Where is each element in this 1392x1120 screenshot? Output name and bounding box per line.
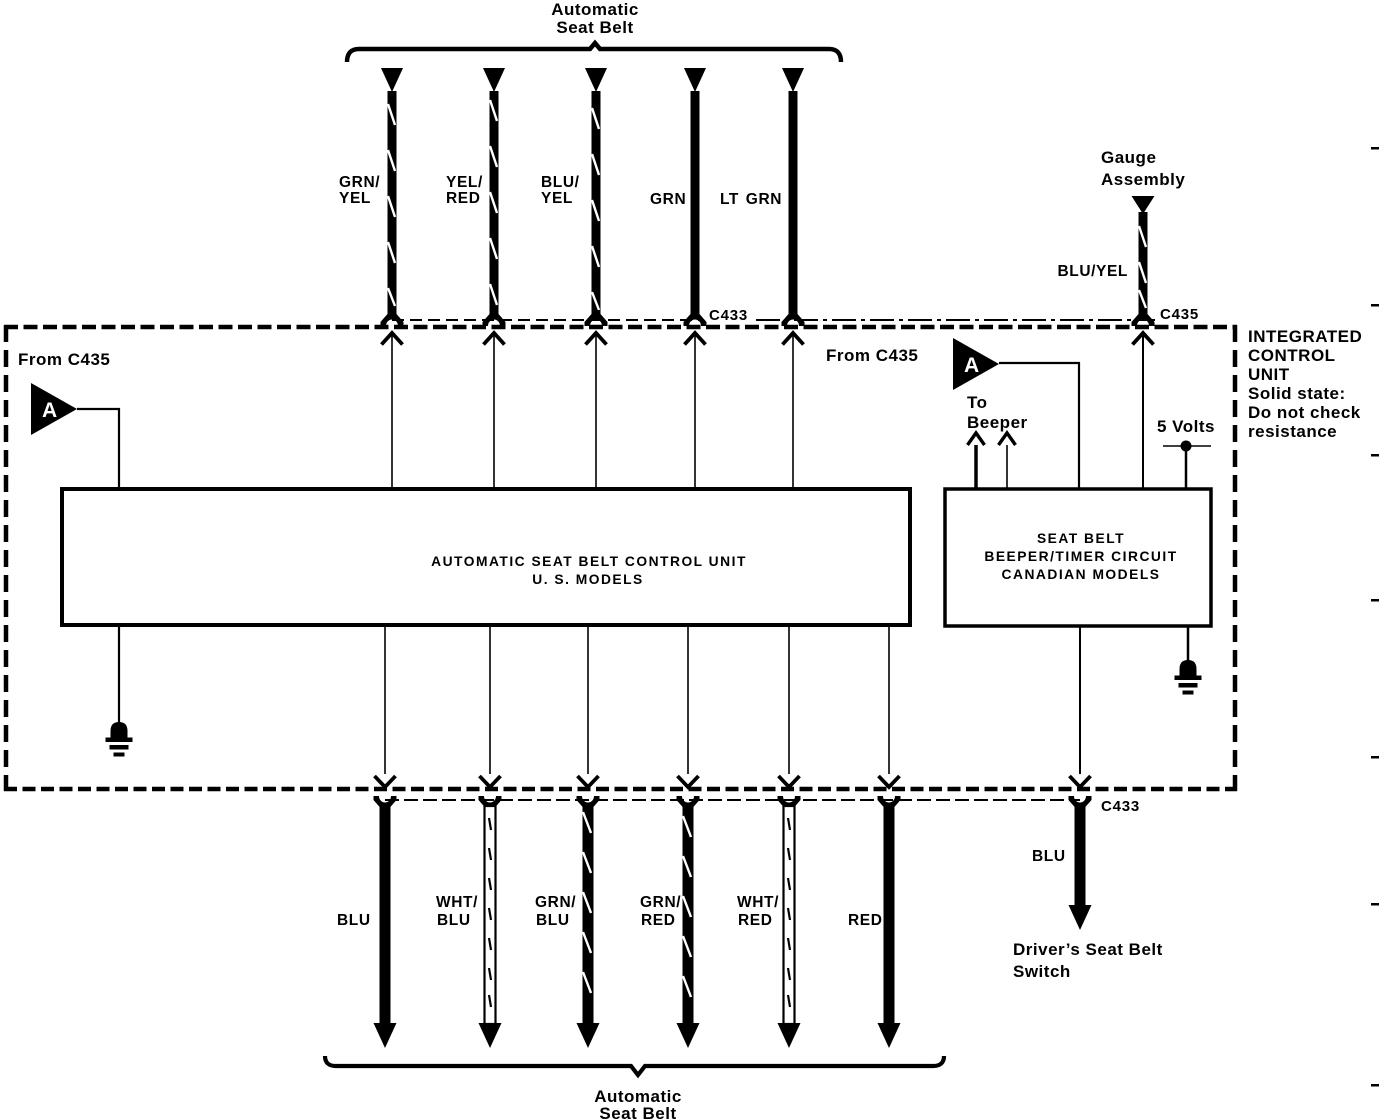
svg-text:WHT/: WHT/ [737,894,779,911]
wire W5 LT GRN (top) [782,68,805,326]
svg-text:INTEGRATED: INTEGRATED [1248,327,1362,346]
wire W4 inside ICU [685,333,706,489]
ground (right, beeper box) [1175,626,1202,695]
brace: top harness bracket [347,43,841,62]
node: 5 volts supply [1163,441,1211,490]
wire W1 GRN/YEL (top) [381,68,404,326]
label WHT/RED [737,894,779,929]
wire RED (bottom) [878,796,901,1048]
svg-text:A: A [42,399,57,422]
box: seat belt beeper/timer circuit [945,489,1211,626]
wire BLU to driver's seat belt switch [1069,796,1092,930]
svg-text:CONTROL: CONTROL [1248,346,1336,365]
svg-text:YEL: YEL [541,190,573,207]
svg-text:C433: C433 [709,307,748,324]
svg-text:GRN/: GRN/ [339,174,380,191]
wire WHT/RED (bottom) [778,796,801,1048]
svg-text:BLU/YEL: BLU/YEL [1057,263,1128,280]
wire W2 YEL/RED (top) [483,68,506,326]
svg-text:SEAT BELT: SEAT BELT [1037,531,1125,546]
wire B2 inside ICU (to WHT/BLU) [480,625,501,787]
svg-text:GRN: GRN [650,191,686,208]
wire W2 inside ICU [484,333,505,489]
gauge assembly label [1101,148,1185,189]
wire to beeper arrow 1 [968,433,985,489]
svg-text:RED: RED [446,190,481,207]
wire W4 GRN (top) [684,68,707,326]
wire beeper output inside ICU (to driver BLU) [1070,626,1091,787]
svg-text:RED: RED [848,912,883,929]
wire B5 inside ICU (to WHT/RED) [779,625,800,787]
svg-text:Driver’s Seat Belt: Driver’s Seat Belt [1013,940,1163,959]
wire BLU (bottom) [374,796,397,1048]
wire GRN/BLU (bottom) [577,796,600,1048]
wire WHT/BLU (bottom) [479,796,502,1048]
svg-text:RED: RED [738,912,773,929]
svg-text:From C435: From C435 [18,350,110,369]
wire W5 inside ICU [783,333,804,489]
svg-text:WHT/: WHT/ [436,894,478,911]
svg-text:BLU: BLU [1032,848,1066,865]
svg-text:Do not check: Do not check [1248,403,1361,422]
svg-text:BLU: BLU [437,912,471,929]
svg-text:GRN/: GRN/ [535,894,576,911]
brace: bottom harness bracket [325,1056,944,1075]
svg-text:Gauge: Gauge [1101,148,1156,167]
svg-text:resistance: resistance [1248,422,1337,441]
svg-text:AUTOMATIC SEAT BELT CONTROL UN: AUTOMATIC SEAT BELT CONTROL UNIT [431,554,747,569]
svg-text:From C435: From C435 [826,346,918,365]
wire W1 inside ICU [382,333,403,489]
svg-text:A: A [964,354,979,377]
svg-text:C435: C435 [1160,306,1199,323]
label To Beeper [967,393,1028,432]
wire B3 inside ICU (to GRN/BLU) [578,625,599,787]
svg-text:To: To [967,393,988,412]
wire from connector A (right) to beeper box [999,363,1079,489]
connector A (left) [31,383,77,435]
wire GRN/RED (bottom) [677,796,700,1048]
box: automatic seat belt control unit [62,489,910,625]
label GRN/RED [640,894,681,929]
svg-text:BLU/: BLU/ [541,174,580,191]
wire W3 BLU/YEL (top) [585,68,608,326]
label YEL/RED [446,174,483,207]
svg-text:Beeper: Beeper [967,413,1028,432]
connector line C433 (top, thin dashed) [392,319,1155,321]
label GRN/YEL [339,174,380,207]
integrated control unit dashed box [4,325,1237,791]
ground (left, control unit) [106,625,133,757]
svg-text:C433: C433 [1101,798,1140,815]
connector line C433 (bottom, thin dashed) [385,799,1080,801]
wire from connector A (left) to control unit [77,409,119,489]
svg-text:5 Volts: 5 Volts [1157,417,1215,436]
wire to beeper arrow 2 [999,433,1016,489]
label BLU/YEL (top wire 3) [541,174,580,207]
svg-text:BLU: BLU [337,912,371,929]
svg-text:CANADIAN MODELS: CANADIAN MODELS [1002,567,1161,582]
label Driver's Seat Belt Switch [1013,940,1163,981]
margin tick marks [1371,147,1379,1087]
wire B1 inside ICU (to BLU) [375,625,396,787]
svg-text:UNIT: UNIT [1248,365,1290,384]
wire gauge BLU/YEL [1132,196,1155,326]
svg-text:Seat Belt: Seat Belt [599,1104,676,1120]
svg-text:BLU: BLU [536,912,570,929]
svg-text:LT GRN: LT GRN [720,191,782,208]
wire gauge line inside ICU [1133,333,1154,489]
svg-text:Seat Belt: Seat Belt [556,18,633,37]
label INTEGRATED CONTROL UNIT [1248,327,1362,441]
svg-text:Automatic: Automatic [551,0,639,19]
label WHT/BLU [436,894,478,929]
wire B6 inside ICU (to RED) [879,625,900,787]
svg-text:U. S. MODELS: U. S. MODELS [532,572,644,587]
connector A (right) [953,338,999,390]
svg-text:BEEPER/TIMER CIRCUIT: BEEPER/TIMER CIRCUIT [984,549,1177,564]
svg-text:Assembly: Assembly [1101,170,1185,189]
label: Automatic Seat Belt (bottom harness) [594,1087,682,1120]
label: Automatic Seat Belt (top harness) [551,0,639,37]
svg-text:YEL: YEL [339,190,371,207]
svg-text:YEL/: YEL/ [446,174,483,191]
wire W3 inside ICU [586,333,607,489]
wire B4 inside ICU (to GRN/RED) [678,625,699,787]
svg-text:RED: RED [641,912,676,929]
svg-text:GRN/: GRN/ [640,894,681,911]
svg-text:Switch: Switch [1013,962,1071,981]
svg-text:Solid state:: Solid state: [1248,384,1346,403]
label GRN/BLU [535,894,576,929]
